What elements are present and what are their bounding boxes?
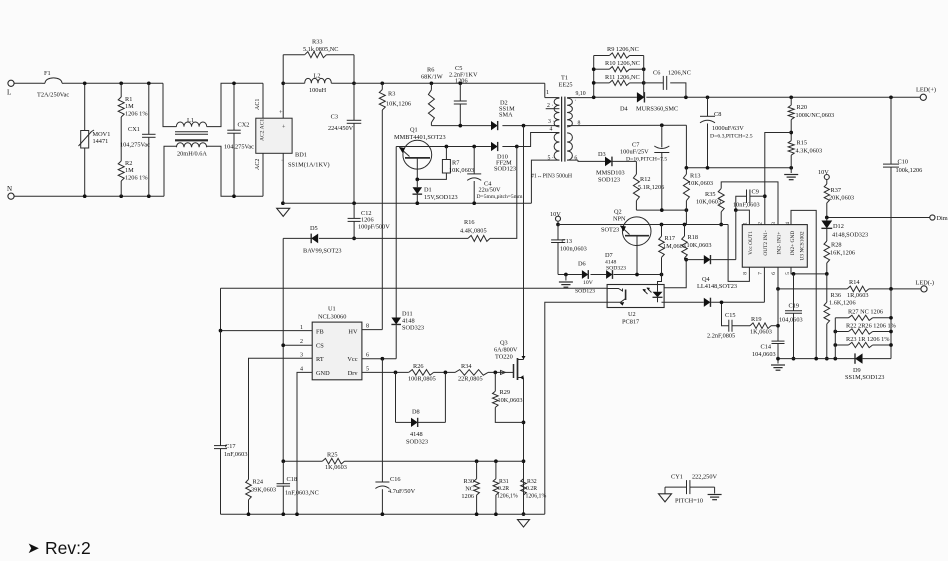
- svg-text:LED(+): LED(+): [916, 87, 936, 94]
- varistor MOV1: [81, 131, 89, 149]
- wire Q3 source column: [523, 378, 525, 515]
- svg-text:TO220: TO220: [495, 354, 513, 361]
- wire AC1 into bridge: [262, 83, 264, 118]
- svg-text:Q2: Q2: [614, 209, 622, 216]
- svg-text:100R,0805: 100R,0805: [408, 376, 436, 383]
- wire HV pin8 to R3: [362, 329, 382, 331]
- svg-text:1: 1: [743, 222, 749, 225]
- svg-text:10K,0603: 10K,0603: [449, 167, 474, 174]
- svg-text:1206,1%: 1206,1%: [526, 494, 547, 500]
- svg-text:R28: R28: [831, 242, 842, 249]
- resistor R30: [476, 461, 478, 479]
- resistor R15: [788, 141, 794, 156]
- svg-text:1K,0603: 1K,0603: [750, 329, 772, 336]
- svg-text:D1: D1: [424, 187, 432, 194]
- svg-text:R14: R14: [849, 279, 860, 286]
- svg-text:104,0603: 104,0603: [752, 351, 776, 358]
- wire D6/D7 row: [558, 274, 582, 276]
- svg-text:AC2 AC1: AC2 AC1: [260, 119, 266, 141]
- ground (secondary) under R15: [790, 168, 792, 173]
- capacitor C17: [214, 445, 227, 447]
- resistor R36: [826, 274, 828, 302]
- svg-text:20mH/0.6A: 20mH/0.6A: [177, 151, 207, 158]
- wire R33-L2 right node to rail: [353, 55, 355, 84]
- capacitor C3: [353, 83, 355, 120]
- svg-text:R20: R20: [797, 104, 808, 111]
- svg-text:D5: D5: [310, 225, 318, 232]
- svg-text:4: 4: [785, 222, 791, 225]
- svg-text:4: 4: [300, 367, 303, 373]
- svg-text:2: 2: [300, 339, 303, 345]
- svg-text:1K,0603: 1K,0603: [325, 464, 347, 471]
- terminal LED(-): [921, 286, 927, 292]
- svg-text:D=5mm,pitch=5mm: D=5mm,pitch=5mm: [477, 194, 524, 200]
- node: L rail junctions: [83, 81, 87, 85]
- svg-text:Dim: Dim: [937, 215, 948, 222]
- svg-text:R25: R25: [327, 452, 338, 459]
- svg-text:CX1: CX1: [128, 126, 140, 133]
- svg-text:R29: R29: [500, 389, 511, 396]
- svg-text:C15: C15: [725, 312, 736, 319]
- svg-text:Vcc OUT1: Vcc OUT1: [748, 231, 754, 255]
- resistor R3: [380, 81, 384, 85]
- svg-text:1206,NC: 1206,NC: [668, 70, 691, 77]
- svg-text:10K,0603: 10K,0603: [688, 180, 713, 187]
- svg-text:Q3: Q3: [500, 340, 508, 347]
- wire secondary ground rail: [686, 167, 791, 169]
- diode D12: [826, 218, 828, 222]
- svg-text:MMBT4401,SOT23: MMBT4401,SOT23: [394, 134, 446, 141]
- svg-text:9,10: 9,10: [576, 91, 586, 97]
- svg-text:N: N: [7, 185, 12, 193]
- diode Q4 lower half: [704, 298, 711, 307]
- wire R27/R22/R23 left column: [834, 318, 836, 359]
- svg-text:15V,SOD123: 15V,SOD123: [424, 194, 458, 201]
- wire LED- column to D9: [890, 289, 892, 359]
- svg-text:1206,1%: 1206,1%: [497, 494, 518, 500]
- svg-text:6: 6: [366, 353, 369, 359]
- svg-text:R9 1206,NC: R9 1206,NC: [607, 46, 639, 53]
- svg-text:HV: HV: [348, 329, 358, 336]
- node: N rail junctions: [83, 194, 87, 198]
- svg-text:IN2- IN1+: IN2- IN1+: [777, 232, 783, 255]
- svg-text:10K,0603: 10K,0603: [687, 242, 712, 249]
- node 10V (C13): [556, 216, 561, 221]
- svg-text:104,275Vac: 104,275Vac: [224, 144, 254, 151]
- svg-text:100n,0603: 100n,0603: [560, 246, 587, 253]
- svg-text:39K,0603: 39K,0603: [251, 487, 276, 494]
- svg-text:224/450V: 224/450V: [328, 125, 354, 132]
- optocoupler U2 PC817: [607, 285, 664, 308]
- wire IN2- pin6 column: [777, 267, 779, 341]
- diode D2: [491, 121, 498, 130]
- svg-text:+: +: [279, 109, 283, 116]
- svg-text:R32: R32: [527, 479, 537, 485]
- wire snubber diode row: [431, 125, 491, 127]
- wire Q1 base column down to D11: [395, 147, 397, 318]
- svg-text:100k,1206: 100k,1206: [896, 167, 923, 174]
- diode D1 (zener 15V): [416, 179, 418, 187]
- transistor Q2: [622, 217, 651, 246]
- wire N rail: [14, 195, 164, 197]
- wire to choke bottom: [164, 146, 176, 196]
- svg-text:·: ·: [575, 98, 577, 104]
- svg-text:D7: D7: [605, 252, 613, 259]
- svg-text:1.6K,1206: 1.6K,1206: [829, 300, 856, 307]
- capacitor C19: [793, 274, 795, 311]
- svg-text:222,250V: 222,250V: [692, 474, 717, 481]
- resistor R25: [322, 458, 344, 464]
- resistor R23: [835, 344, 848, 346]
- wire RT pin3 to R24: [249, 358, 313, 479]
- transformer T1 primary winding: [554, 98, 559, 127]
- wire FB column / C17: [220, 288, 222, 330]
- wire GND pin4: [297, 372, 312, 514]
- svg-text:D8: D8: [412, 409, 420, 416]
- svg-text:Drv: Drv: [348, 370, 359, 377]
- svg-text:SOD123: SOD123: [494, 166, 516, 173]
- svg-text:D11: D11: [402, 311, 413, 318]
- wire Vcc pin6: [362, 358, 396, 360]
- svg-text:7: 7: [758, 272, 764, 275]
- capacitor CY1: [686, 480, 688, 494]
- diode Q4 upper half: [704, 255, 711, 264]
- svg-text:RT: RT: [316, 356, 324, 363]
- svg-text:4.7uF/50V: 4.7uF/50V: [388, 488, 416, 495]
- resistor R13: [685, 168, 687, 174]
- wire aux winding pin5 to primary ground: [531, 160, 559, 203]
- svg-text:R15: R15: [797, 140, 808, 147]
- svg-text:R37: R37: [831, 187, 842, 194]
- svg-text:10V: 10V: [818, 169, 829, 176]
- resistor R26: [409, 370, 434, 376]
- diode D6 (zener 10V): [582, 270, 588, 279]
- capacitor CX1: [148, 83, 150, 134]
- ground (primary) at BD1: [277, 208, 290, 216]
- svg-text:T2A/250Vac: T2A/250Vac: [37, 92, 69, 99]
- wire primary ground rail: [283, 202, 532, 204]
- capacitor C12: [353, 203, 355, 218]
- svg-text:R35: R35: [705, 191, 716, 198]
- wire secondary positive rail: [567, 97, 594, 99]
- capacitor C7: [661, 125, 663, 147]
- svg-text:R10 1206,NC: R10 1206,NC: [605, 60, 640, 67]
- wire choke to CX2 bottom: [207, 146, 263, 196]
- wire OUT1 pin1 connection: [736, 210, 750, 225]
- svg-text:NCL30060: NCL30060: [318, 314, 346, 321]
- svg-text:R17: R17: [665, 235, 676, 242]
- svg-text:5 ·: 5 ·: [548, 156, 554, 162]
- svg-text:4148: 4148: [402, 318, 415, 325]
- svg-text:R27 NC 1206: R27 NC 1206: [848, 309, 883, 316]
- capacitor C14: [772, 340, 785, 342]
- svg-text:1nF,0603,NC: 1nF,0603,NC: [285, 490, 319, 497]
- resistor R9 (parallel ladder): [593, 56, 595, 98]
- svg-text:R2: R2: [125, 160, 132, 167]
- svg-text:C19: C19: [789, 303, 800, 310]
- svg-text:10K,0603: 10K,0603: [696, 199, 721, 206]
- svg-text:EE25: EE25: [559, 82, 573, 89]
- wire choke to CX2 top: [207, 83, 263, 126]
- svg-text:AC2: AC2: [255, 159, 261, 170]
- wire opto collector to R18: [664, 260, 686, 288]
- diode D8 loop: [395, 372, 397, 422]
- terminal Dim: [930, 215, 935, 220]
- svg-text:C18: C18: [287, 476, 298, 483]
- svg-text:R34: R34: [461, 363, 472, 370]
- capacitor C9: [736, 196, 747, 210]
- svg-text:SOD123: SOD123: [598, 177, 620, 184]
- svg-text:Q1: Q1: [410, 127, 418, 134]
- svg-text:L1: L1: [187, 117, 194, 124]
- svg-text:FB: FB: [316, 329, 324, 336]
- wire OUT1 down to OR diode: [735, 210, 737, 260]
- resistor R31: [495, 461, 497, 479]
- resistor R22: [835, 331, 848, 333]
- svg-text:22u/50V: 22u/50V: [479, 187, 501, 194]
- terminal L: [8, 80, 14, 86]
- wire 10V rail to U3 Vcc pin8: [728, 225, 749, 282]
- svg-text:1206 1%: 1206 1%: [125, 175, 148, 182]
- svg-text:2.2nF,0805: 2.2nF,0805: [707, 333, 735, 340]
- capacitor C6: [644, 82, 664, 84]
- svg-text:3: 3: [771, 222, 777, 225]
- resistor R32: [521, 479, 527, 495]
- svg-text:L2: L2: [314, 73, 321, 80]
- svg-text:1206 1%: 1206 1%: [125, 111, 148, 118]
- svg-text:C16: C16: [390, 476, 401, 483]
- svg-text:R11 1206,NC: R11 1206,NC: [605, 74, 640, 81]
- capacitor C8: [707, 97, 709, 116]
- svg-text:C6: C6: [653, 70, 660, 77]
- svg-text:4: 4: [550, 127, 553, 133]
- svg-text:1M: 1M: [125, 103, 134, 110]
- wire Dim line: [827, 217, 930, 219]
- svg-text:D3: D3: [598, 151, 606, 158]
- svg-text:1M,0603: 1M,0603: [663, 243, 686, 250]
- wire aux 10V sub-rail: [636, 209, 686, 211]
- wire CS pin2: [283, 344, 312, 346]
- svg-text:1000uF/63V: 1000uF/63V: [712, 125, 744, 132]
- wire secondary ground rail 2: [778, 358, 855, 360]
- svg-text:C14: C14: [761, 344, 772, 351]
- wire OUT2 pin7 column: [763, 267, 765, 302]
- svg-text:R7: R7: [452, 160, 459, 167]
- svg-text:MMSD103: MMSD103: [596, 170, 625, 177]
- IC U1 NCL30060: [312, 322, 362, 380]
- svg-text:BAV99,SOT23: BAV99,SOT23: [303, 248, 342, 255]
- svg-text:BD1: BD1: [295, 152, 307, 159]
- wire LED- line: [778, 288, 847, 290]
- svg-text:PITCH=10: PITCH=10: [675, 498, 703, 505]
- svg-text:1206: 1206: [361, 217, 374, 224]
- svg-text:0.2R: 0.2R: [526, 486, 537, 492]
- wire Q1 collector rail (snubber return): [396, 146, 491, 148]
- svg-text:10V: 10V: [550, 211, 561, 218]
- ground (primary) bottom: [518, 520, 530, 527]
- svg-text:PC817: PC817: [622, 319, 639, 326]
- transistor Q1: [403, 140, 432, 169]
- svg-text:NC: NC: [465, 486, 474, 493]
- svg-text:C7: C7: [632, 142, 639, 149]
- svg-text:8: 8: [366, 324, 369, 330]
- wire sense column to R16 rail: [490, 147, 517, 239]
- svg-text:R12: R12: [640, 176, 651, 183]
- svg-text:MURS360,SMC: MURS360,SMC: [636, 106, 678, 113]
- svg-text:10nF,0603: 10nF,0603: [733, 202, 760, 209]
- inductor L2: [283, 82, 305, 84]
- wire MOV column: [84, 83, 86, 130]
- wire FB pin1: [221, 330, 313, 332]
- svg-text:1nF,0603: 1nF,0603: [224, 451, 247, 458]
- svg-text:T1: T1: [561, 75, 568, 82]
- svg-text:D=6.3,PITCH=2.5: D=6.3,PITCH=2.5: [710, 134, 753, 140]
- resistor R12: [635, 161, 637, 174]
- fuse F1: [45, 78, 62, 83]
- diode D9: [854, 353, 856, 363]
- wire DC bus rail to transformer pin1: [354, 82, 545, 84]
- svg-text:104,0603: 104,0603: [779, 317, 803, 324]
- svg-text:100pF/500V: 100pF/500V: [358, 224, 390, 231]
- wire OR-diode upper row: [685, 259, 704, 261]
- svg-text:C3: C3: [331, 114, 338, 121]
- resistor R37: [826, 180, 828, 185]
- resistor R20: [790, 97, 792, 105]
- diode D4: [637, 92, 645, 102]
- svg-text:F1: F1: [44, 70, 51, 77]
- wire D5 left column down (CS node): [282, 238, 284, 461]
- svg-text:1206: 1206: [455, 78, 468, 85]
- wire AC2 into bridge: [262, 153, 264, 196]
- terminal LED(+): [920, 94, 926, 100]
- svg-text:C17: C17: [225, 443, 236, 450]
- svg-text:U3 NCS1002: U3 NCS1002: [800, 231, 806, 261]
- svg-text:104,275Vac: 104,275Vac: [120, 142, 150, 149]
- svg-text:68K/1W: 68K/1W: [421, 74, 443, 81]
- inductor L1 common-mode choke: [176, 122, 206, 127]
- svg-text:L: L: [7, 89, 11, 97]
- svg-text:R31: R31: [499, 479, 509, 485]
- wire pin8 secondary return: [567, 124, 686, 126]
- diode D7: [606, 270, 612, 279]
- svg-text:R30: R30: [464, 478, 475, 485]
- svg-text:SOD323: SOD323: [406, 439, 428, 446]
- resistor R34: [455, 370, 488, 376]
- resistor R17: [661, 225, 663, 237]
- wire Drv pin5 line: [362, 371, 409, 373]
- svg-text:1M: 1M: [125, 167, 134, 174]
- svg-text:5.1k,0805,NC: 5.1k,0805,NC: [303, 46, 339, 53]
- svg-text:R33: R33: [312, 39, 323, 46]
- resistor R28: [824, 241, 830, 263]
- svg-text:3: 3: [300, 353, 303, 359]
- resistor R2: [118, 161, 124, 181]
- svg-text:CY1: CY1: [671, 474, 683, 481]
- resistor R33: [283, 54, 305, 56]
- resistor R18: [684, 225, 686, 237]
- wire OR-diode lower row: [662, 301, 704, 303]
- svg-text:22R,0805: 22R,0805: [458, 376, 483, 383]
- svg-text:0.2R: 0.2R: [498, 486, 509, 492]
- svg-text:SOD323: SOD323: [606, 266, 626, 272]
- svg-text:SOT23: SOT23: [601, 227, 619, 234]
- svg-text:CS: CS: [316, 343, 324, 350]
- svg-text:4.4K,0805: 4.4K,0805: [460, 228, 487, 235]
- mosfet Q3: [508, 371, 510, 373]
- svg-text:R16: R16: [464, 219, 475, 226]
- capacitor C18: [282, 461, 284, 484]
- wire IN2+ pin5 line: [791, 267, 827, 274]
- wire Vcc column to C16: [381, 359, 383, 482]
- svg-text:NPN: NPN: [613, 216, 626, 223]
- wire ladder right column: [643, 56, 645, 98]
- IC U3 NCS1002: [742, 225, 807, 268]
- svg-text:R19: R19: [751, 316, 762, 323]
- svg-text:SMA: SMA: [499, 112, 513, 119]
- svg-text:R18: R18: [688, 234, 699, 241]
- wire opto emitter feedback to primary: [545, 302, 622, 514]
- wire primary bottom ground rail: [221, 513, 545, 515]
- wire transformer pin4 jog to snubber rail: [517, 133, 560, 147]
- resistor R27: [835, 317, 848, 319]
- svg-text:➤: ➤: [27, 540, 40, 557]
- svg-text:OUT2 IN1-: OUT2 IN1-: [763, 230, 769, 256]
- resistor R1: [120, 83, 122, 97]
- svg-text:1206: 1206: [461, 493, 474, 500]
- resistor R16: [468, 235, 490, 241]
- wire FB long line: [221, 287, 608, 289]
- svg-text:C8: C8: [714, 111, 721, 118]
- resistor R11: [594, 82, 610, 84]
- svg-text:16K,1206: 16K,1206: [830, 250, 855, 257]
- svg-text:5: 5: [785, 272, 791, 275]
- resistor R14: [847, 286, 869, 292]
- svg-text:100uH: 100uH: [309, 87, 327, 94]
- ground (secondary) at CY1: [714, 487, 716, 493]
- wire BD1 plus column: [282, 55, 284, 118]
- svg-text:SOD323: SOD323: [402, 325, 424, 332]
- svg-text:R36: R36: [831, 292, 842, 299]
- svg-text:6A/800V: 6A/800V: [494, 347, 518, 354]
- capacitor CX2: [233, 83, 235, 130]
- svg-text:20K,0603: 20K,0603: [829, 195, 854, 202]
- ground (secondary) at C14: [777, 359, 779, 364]
- capacitor C15 and R19 line: [722, 302, 729, 325]
- svg-text:SS1M(1A/1KV): SS1M(1A/1KV): [288, 162, 330, 169]
- diode D8: [411, 418, 418, 427]
- svg-text:LED(-): LED(-): [916, 280, 935, 287]
- svg-text:8: 8: [743, 272, 749, 275]
- wire BD1 minus to ground rail: [282, 153, 284, 203]
- svg-text:2: 2: [758, 222, 764, 225]
- wire IN1+ pin3 to R35: [721, 182, 778, 225]
- capacitor C5: [458, 81, 462, 85]
- wire drain column (pin3 node down to Q3): [523, 126, 525, 360]
- svg-text:R13: R13: [690, 173, 701, 180]
- terminal N: [8, 193, 14, 199]
- svg-text:10K,1206: 10K,1206: [386, 101, 411, 108]
- svg-text:U2: U2: [628, 311, 636, 318]
- svg-text:Rev:2: Rev:2: [45, 538, 91, 558]
- svg-text:100K/NC,0603: 100K/NC,0603: [796, 112, 835, 119]
- svg-text:4.3K,0603: 4.3K,0603: [796, 148, 823, 155]
- resistor R29: [494, 372, 496, 391]
- diode D10: [491, 142, 498, 151]
- transformer T1 aux winding left: [554, 133, 559, 160]
- svg-text:SS1M,SOD123: SS1M,SOD123: [845, 374, 884, 381]
- svg-text:GND: GND: [316, 370, 330, 377]
- resistor R19: [750, 323, 771, 329]
